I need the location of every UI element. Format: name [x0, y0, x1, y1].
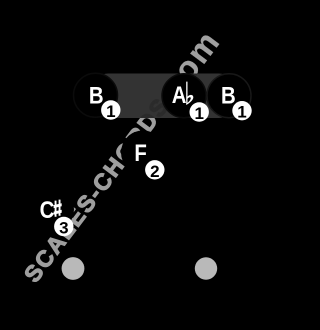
svg-text:A: A: [172, 82, 187, 109]
finger circle 2 on F: [145, 160, 164, 179]
svg-text:1: 1: [194, 104, 203, 123]
finger circle 1 on B right: [232, 101, 251, 120]
note dot B string6 fret1: [207, 74, 251, 118]
note dot B string3 fret1: [74, 73, 118, 117]
note dot C# string2 fret3: [30, 188, 74, 232]
note dot F string4 fret2: [121, 131, 165, 175]
fret inlay marker right: [195, 257, 217, 279]
svg-text:B: B: [221, 82, 236, 109]
svg-text:2: 2: [150, 162, 159, 181]
finger circle 3 on C#: [54, 217, 73, 236]
svg-text:C: C: [40, 196, 55, 223]
flat sign of Ab: [186, 82, 193, 105]
fret inlay marker left: [62, 257, 85, 280]
guitar chord diagram, C#7, dark background: [0, 0, 255, 330]
svg-text:1: 1: [106, 102, 115, 121]
svg-text:F: F: [134, 139, 146, 166]
svg-text:3: 3: [59, 219, 68, 238]
note dot Ab string5 fret1: [162, 74, 206, 118]
fret band (first fret cell highlight): [94, 74, 233, 119]
watermark ghost visible through band: [19, 23, 227, 287]
svg-text:1: 1: [237, 103, 246, 122]
finger circle 1 on Ab: [190, 102, 209, 121]
finger circle 1 on B left: [101, 100, 120, 119]
svg-text:B: B: [89, 82, 104, 109]
sharp sign of C#: [54, 200, 62, 217]
